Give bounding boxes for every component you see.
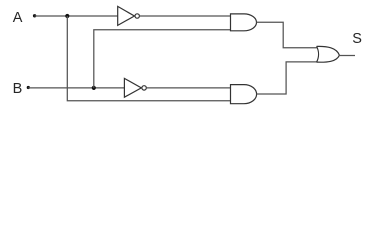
wire AND2 output up to OR lower input	[257, 62, 318, 94]
wire NOT2 output to AND2 upper input	[146, 87, 230, 89]
node junction A	[65, 14, 69, 18]
AND gate AND1	[231, 14, 257, 31]
inverter NOT2 (B) triangle	[124, 78, 141, 97]
AND gate AND2	[231, 85, 257, 104]
inverter NOT1 (A) triangle	[118, 6, 135, 25]
inverter NOT1 bubble	[135, 14, 139, 18]
OR gate bottom curve	[317, 55, 340, 62]
svg-text:B: B	[13, 81, 23, 97]
wire NOT1 output to AND1 upper input	[139, 15, 230, 17]
terminal dot input A	[33, 14, 36, 17]
OR gate back concave arc	[317, 46, 319, 62]
wire A branch vertical down then right to AND2 lower input	[67, 16, 230, 101]
OR gate top curve	[317, 46, 340, 55]
node junction B	[92, 86, 96, 90]
svg-text:A: A	[13, 10, 23, 26]
input label A	[13, 10, 23, 26]
wire B branch vertical up then right to AND1 lower input	[94, 30, 231, 88]
terminal dot input B	[27, 86, 30, 89]
wire OR output S	[339, 55, 355, 57]
wire A horizontal to NOT1 input	[35, 15, 118, 17]
output label S	[352, 31, 362, 47]
wire B horizontal to NOT2 input	[28, 87, 124, 89]
input label B	[13, 81, 23, 97]
inverter NOT2 bubble	[142, 86, 146, 90]
svg-text:S: S	[352, 31, 362, 47]
wire AND1 output down to OR upper input	[257, 22, 318, 48]
